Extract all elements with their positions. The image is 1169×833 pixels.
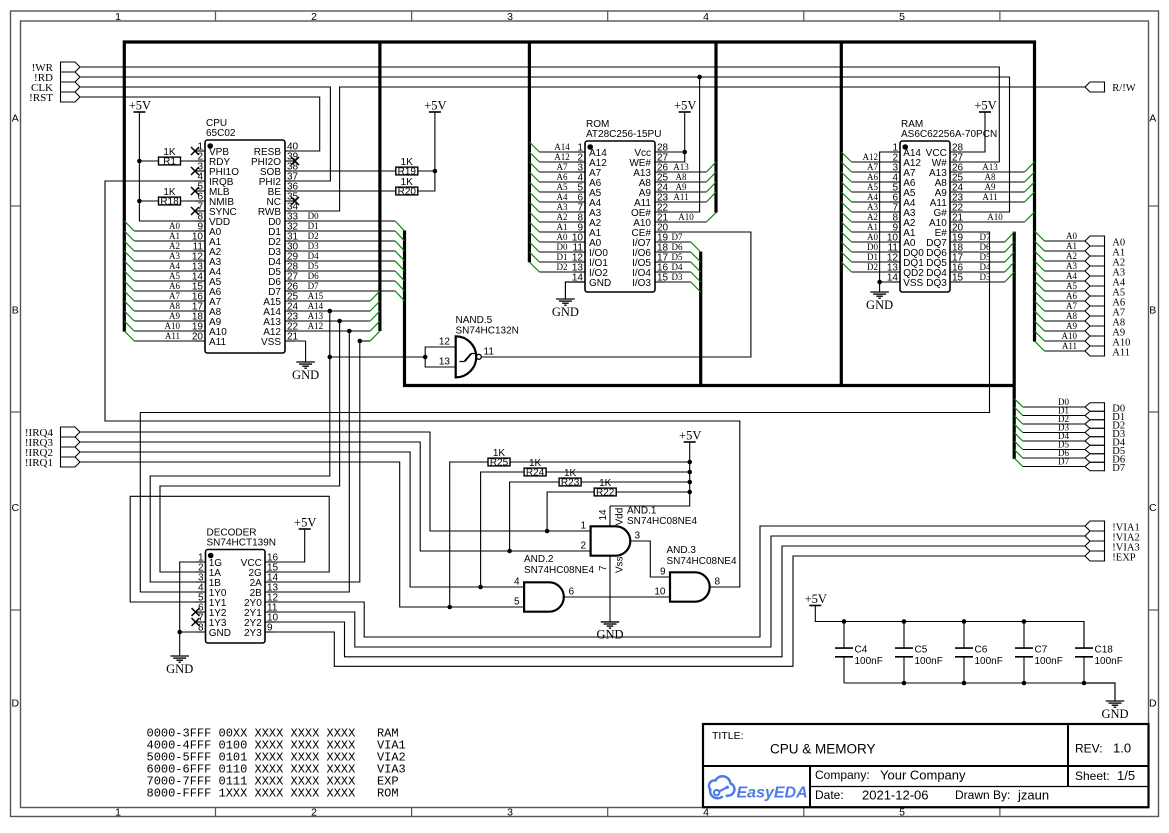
resistor R19 1K (SOB pullup) — [396, 157, 418, 178]
svg-text:A10: A10 — [1062, 331, 1078, 341]
svg-text:GND: GND — [589, 278, 611, 289]
wire D3 flag wire — [1023, 432, 1085, 434]
wire CPU D1 to data bus — [285, 230, 395, 232]
node A6 label (RAM left) — [867, 172, 878, 182]
svg-text:A14: A14 — [308, 301, 324, 311]
junction at 434.9,171 — [433, 169, 438, 174]
junction at 689.7,472 — [687, 470, 692, 475]
svg-text:VSS: VSS — [903, 278, 923, 289]
wire RAM A5 wire — [852, 191, 900, 193]
svg-text:A8: A8 — [985, 172, 996, 182]
bus entry D0 (flag) — [1014, 399, 1023, 408]
bus entry A6 (flag) — [1035, 291, 1045, 301]
svg-text:A13: A13 — [308, 311, 324, 321]
wire CPU A1 to address bus — [134, 240, 205, 242]
node A8 label (flag wire) — [1066, 311, 1077, 321]
bus entry D7 (RAM right) — [1005, 232, 1014, 242]
bus entry A0 (ROM left) — [529, 232, 539, 242]
node A10 label (RAM right) — [987, 212, 1003, 222]
svg-text:!RST: !RST — [29, 92, 53, 104]
wire R18 to +5V rail — [139, 200, 158, 202]
wire R24 branch — [481, 472, 524, 587]
bus entry A6 (RAM left) — [841, 172, 851, 182]
wire A4 flag wire — [1045, 280, 1086, 282]
svg-text:TITLE:: TITLE: — [712, 730, 744, 742]
svg-text:R20: R20 — [398, 186, 417, 197]
wire !RST to CPU RESB — [80, 97, 320, 151]
node A8 label (ROM right) — [676, 172, 687, 182]
svg-text:14: 14 — [598, 509, 609, 521]
wire R1 to CPU RDY — [181, 160, 206, 162]
node A9 label (CPU) — [169, 311, 180, 321]
svg-text:A3: A3 — [169, 251, 180, 261]
svg-text:5: 5 — [899, 11, 905, 23]
bus entry A1 (ROM left) — [529, 222, 539, 232]
svg-text:A0: A0 — [557, 232, 568, 242]
svg-text:D0: D0 — [867, 242, 878, 252]
svg-text:Your Company: Your Company — [880, 768, 966, 783]
svg-text:A6: A6 — [1066, 291, 1077, 301]
wire CPU A3 to address bus — [134, 260, 205, 262]
wire CPU A13 to high-address bus — [285, 320, 370, 322]
wire +5V to CPU VDD rail — [139, 112, 205, 221]
node A7 label (ROM left) — [557, 162, 568, 172]
junction at 425.2,357 — [423, 355, 428, 360]
node D6 label (ROM right) — [672, 242, 683, 252]
bus entry A1 (CPU left) — [124, 231, 134, 241]
node !IRQ4 input flag — [25, 427, 80, 439]
node D7 label (CPU) — [308, 281, 319, 291]
wire RAM A14 tie to ground — [880, 152, 900, 282]
junction at 904,621.5 — [902, 619, 907, 624]
svg-text:R18: R18 — [160, 196, 179, 207]
node D4 label (flag wire) — [1058, 431, 1069, 441]
wire RAM A10 wire right — [950, 221, 1025, 223]
svg-text:A8: A8 — [676, 172, 687, 182]
svg-text:R23: R23 — [561, 477, 580, 488]
svg-text:A7: A7 — [1066, 301, 1077, 311]
bus entry A11 (ROM right) — [706, 192, 716, 202]
wire R25 to +5V rail — [510, 461, 690, 463]
bus entry D3 (RAM right) — [1005, 272, 1014, 282]
svg-text:2: 2 — [580, 541, 586, 552]
node A9 label (flag wire) — [1066, 321, 1077, 331]
svg-text:Vdd: Vdd — [615, 508, 626, 526]
svg-text:A1: A1 — [867, 222, 878, 232]
wire A5 flag wire — [1045, 290, 1086, 292]
node A6 flag — [1085, 296, 1125, 308]
svg-text:A3: A3 — [1066, 261, 1077, 271]
svg-text:A1: A1 — [1066, 241, 1077, 251]
bus: ROM address vertical — [528, 42, 531, 262]
node A13 label (CPU) — [308, 311, 324, 321]
node A9 flag — [1085, 326, 1125, 338]
wire A12 stub to bus entry — [360, 340, 370, 342]
svg-text:R/!W: R/!W — [1112, 83, 1135, 94]
bus: ROM right address vertical — [714, 42, 717, 213]
wire CPU A8 to address bus — [134, 310, 205, 312]
svg-text:A8: A8 — [1066, 311, 1077, 321]
wire CPU A15 to high-address bus — [285, 300, 370, 302]
wire A8 flag wire — [1045, 320, 1086, 322]
capacitor C18 100nF — [1075, 622, 1123, 684]
bus entry D4 (flag) — [1014, 433, 1023, 442]
node A0 label (CPU) — [169, 221, 180, 231]
svg-text:C18: C18 — [1095, 645, 1114, 656]
bus entry A8 (CPU left) — [124, 301, 134, 311]
wire RAM D7 wire right — [950, 241, 1005, 243]
wire ROM A3 wire — [539, 211, 585, 213]
node A7 flag — [1085, 306, 1125, 318]
svg-text:D6: D6 — [308, 271, 319, 281]
ground (decoder GND / 1G tie) — [166, 632, 193, 676]
AND gate AND.1 SN74HC08NE4 — [580, 506, 697, 574]
bus entry D1 (ROM left) — [529, 252, 539, 262]
svg-text:2021-12-06: 2021-12-06 — [862, 788, 929, 803]
wire RAM VSS to ground — [880, 281, 900, 283]
junction at 689.7,462 — [687, 460, 692, 465]
node D5 label (flag wire) — [1058, 440, 1069, 450]
bus entry A8 (flag) — [1035, 311, 1045, 321]
bus entry A8 (ROM right) — [706, 172, 716, 182]
node A14 label (CPU) — [308, 301, 324, 311]
svg-text:1: 1 — [580, 521, 586, 532]
wire NAND output to ROM CE# — [481, 232, 751, 357]
svg-text:A12: A12 — [308, 321, 324, 331]
bus entry A13 (ROM right) — [706, 162, 716, 172]
svg-text:A: A — [12, 113, 19, 125]
svg-text:R25: R25 — [490, 457, 509, 468]
wire D4 flag wire — [1023, 440, 1085, 442]
resistor R25 1K (!IRQ1 pullup) — [488, 448, 510, 469]
svg-text:100nF: 100nF — [1095, 656, 1123, 667]
wire RAM A2 wire — [852, 221, 900, 223]
wire R19 to +5V — [418, 170, 435, 172]
svg-text:AT28C256-15PU: AT28C256-15PU — [586, 129, 661, 140]
svg-text:+5V: +5V — [974, 99, 996, 113]
wire RAM A9 wire right — [950, 191, 1025, 193]
svg-text:Vss: Vss — [615, 556, 626, 573]
wire D5 flag wire — [1023, 449, 1085, 451]
svg-text:A4: A4 — [169, 261, 180, 271]
wire RAM A6 wire — [852, 181, 900, 183]
node A6 label (ROM left) — [557, 172, 568, 182]
svg-text:A6: A6 — [557, 172, 568, 182]
bus entry D5 (CPU) — [395, 271, 404, 281]
node !VIA3 flag — [1085, 541, 1140, 553]
wire A14 line to NAND input and decoder 1B — [150, 311, 330, 582]
svg-text:6: 6 — [569, 587, 575, 598]
node A10 label (CPU) — [165, 321, 181, 331]
wire RAM D2 wire — [852, 271, 900, 273]
svg-text:A9: A9 — [169, 311, 180, 321]
bus entry A1 (RAM left) — [841, 222, 851, 232]
svg-text:GND: GND — [866, 298, 893, 312]
svg-text:jzaun: jzaun — [1017, 788, 1049, 803]
bus entry A4 (ROM left) — [529, 192, 539, 202]
capacitor C4 100nF — [835, 622, 883, 684]
bus entry D6 (RAM right) — [1005, 242, 1014, 252]
node A4 flag — [1085, 276, 1126, 288]
wire CPU A5 to address bus — [134, 280, 205, 282]
bus entry D7 (ROM right) — [691, 242, 701, 252]
wire CPU A7 to address bus — [134, 300, 205, 302]
svg-text:+5V: +5V — [679, 429, 701, 443]
wire A12 line to decoder 2B — [265, 331, 349, 592]
bus entry A11 (flag) — [1035, 341, 1045, 351]
bus entry (CPU A12 row) — [370, 331, 380, 341]
node D3 label (flag wire) — [1058, 423, 1069, 433]
power +5V (decoder VCC) — [294, 516, 316, 530]
wire ROM A13 wire right — [655, 171, 706, 173]
node A9 label (RAM right) — [985, 182, 996, 192]
bus entry A5 (flag) — [1035, 281, 1045, 291]
power +5V (bypass caps) — [805, 592, 827, 606]
svg-text:+5V: +5V — [805, 592, 827, 606]
svg-text:A0: A0 — [169, 221, 180, 231]
node A11 label (flag wire) — [1062, 341, 1077, 351]
wire RAM VCC to +5V — [950, 112, 985, 152]
node A11 flag — [1085, 346, 1130, 358]
svg-text:A7: A7 — [557, 162, 568, 172]
ground (RAM VSS / A14 tie) — [866, 282, 893, 312]
wire RAM D5 wire right — [950, 261, 1005, 263]
svg-text:A1: A1 — [169, 231, 180, 241]
svg-text:A10: A10 — [987, 212, 1003, 222]
svg-text:D0: D0 — [308, 211, 319, 221]
wire RAM D0 wire — [852, 251, 900, 253]
resistor R20 1K (BE pullup) — [396, 177, 418, 198]
svg-text:REV:: REV: — [1075, 742, 1103, 756]
node D5 label (RAM right) — [980, 252, 991, 262]
junction at 1024,683 — [1022, 681, 1027, 686]
svg-text:4: 4 — [703, 11, 709, 23]
node A12 label (CPU) — [308, 321, 324, 331]
wire ROM D5 wire right — [655, 261, 691, 263]
resistor R18 1K (NMIB pullup) — [159, 187, 181, 208]
bus entry A12 (CPU) — [370, 321, 380, 331]
junction at 449.7,607 — [447, 605, 452, 610]
node A10 label (ROM right) — [678, 212, 694, 222]
node A11 label (RAM right) — [982, 192, 997, 202]
bus entry A7 (ROM left) — [529, 162, 539, 172]
svg-text:A10: A10 — [165, 321, 181, 331]
wire R25 branch — [450, 462, 488, 607]
node A2 label (CPU) — [169, 241, 180, 251]
node D4 label (ROM right) — [672, 262, 683, 272]
node A11 label (ROM right) — [673, 192, 688, 202]
junction at 359.8,341 — [358, 339, 363, 344]
bus entry A3 (flag) — [1035, 261, 1045, 271]
bus entry D2 (RAM left) — [841, 262, 851, 272]
wire A13 line to decoder 1A — [160, 321, 340, 572]
svg-text:EasyEDA: EasyEDA — [737, 785, 808, 802]
wire AND.1 output to AND.3 pin9 — [630, 541, 670, 577]
node !RST input flag — [29, 92, 80, 104]
wire CPU D5 to data bus — [285, 270, 395, 272]
svg-text:7: 7 — [598, 565, 609, 571]
NAND gate NAND.5 SN74HC132N (inverter for ROM CE) — [439, 315, 519, 378]
svg-text:10: 10 — [654, 587, 666, 598]
bus entry A2 (CPU left) — [124, 241, 134, 251]
node A10 flag — [1085, 336, 1130, 348]
node A12 label (RAM left) — [863, 152, 879, 162]
node A7 label (flag wire) — [1066, 301, 1077, 311]
wire D1 flag wire — [1023, 415, 1085, 417]
svg-text:A2: A2 — [1066, 251, 1077, 261]
svg-text:A10: A10 — [678, 212, 694, 222]
bus entry D7 (CPU) — [395, 291, 404, 301]
wire RAM D1 wire — [852, 261, 900, 263]
junction at 179.7,632 — [177, 630, 182, 635]
node A1 label (ROM left) — [557, 222, 568, 232]
svg-text:D1: D1 — [557, 252, 568, 262]
svg-text:A5: A5 — [867, 182, 878, 192]
svg-text:A2: A2 — [557, 212, 568, 222]
svg-text:D1: D1 — [308, 221, 319, 231]
wire R24 to +5V rail — [546, 471, 690, 473]
wire ROM A14 wire — [539, 151, 585, 153]
svg-text:11: 11 — [484, 346, 495, 357]
bus entry A9 (flag) — [1035, 321, 1045, 331]
svg-text:D6: D6 — [672, 242, 683, 252]
bus entry D0 (CPU) — [395, 221, 404, 231]
bus: ROM data vertical — [699, 252, 702, 386]
IC U2 ROM AT28C256-15PU (pins 1-28) — [572, 119, 669, 292]
node D1 label (ROM left) — [557, 252, 568, 262]
node A15 label (CPU) — [308, 291, 324, 301]
wire RAM A7 wire — [852, 171, 900, 173]
node D7 label (RAM right) — [980, 232, 991, 242]
node D1 label (RAM left) — [867, 252, 878, 262]
node D6 label (flag wire) — [1058, 448, 1069, 458]
wire !WR to RAM W# — [80, 67, 999, 162]
wire A7 flag wire — [1045, 310, 1086, 312]
node A0 flag — [1085, 236, 1125, 248]
title block frame — [703, 724, 1149, 807]
junction at 547.1,531 — [545, 529, 550, 534]
wire D0 flag wire — [1023, 406, 1085, 408]
node D4 flag — [1085, 437, 1126, 449]
wire CPU D4 to data bus — [285, 260, 395, 262]
node A1 label (CPU) — [169, 231, 180, 241]
wire R22 to +5V rail — [616, 491, 690, 493]
junction at 349.3,331 — [347, 329, 352, 334]
node D3 label (ROM right) — [672, 272, 683, 282]
svg-text:A6: A6 — [867, 172, 878, 182]
bus entry A10 (flag) — [1035, 331, 1045, 341]
wire !IRQ2 to AND.2 pin4 — [80, 452, 524, 587]
node !EXP flag — [1085, 551, 1136, 563]
svg-text:A12: A12 — [554, 152, 570, 162]
wire !IRQ4 to AND.1 pin1 — [80, 432, 591, 531]
svg-text:AS6C62256A-70PCN: AS6C62256A-70PCN — [901, 129, 997, 140]
junction at 1084,683 — [1082, 681, 1087, 686]
svg-text:AND.1: AND.1 — [627, 506, 657, 517]
wire R1 to +5V rail — [139, 160, 158, 162]
node D5 label (ROM right) — [672, 252, 683, 262]
node !IRQ1 input flag — [25, 457, 80, 469]
wire ROM A2 wire — [539, 221, 585, 223]
node A4 label (ROM left) — [557, 192, 568, 202]
junction at 339.6,321 — [337, 319, 342, 324]
svg-text:D1: D1 — [867, 252, 878, 262]
svg-text:A6: A6 — [169, 281, 180, 291]
svg-text:A2: A2 — [169, 241, 180, 251]
junction at 509.6,551 — [507, 549, 512, 554]
svg-text:A15: A15 — [308, 291, 324, 301]
node A5 label (CPU) — [169, 271, 180, 281]
svg-text:D7: D7 — [1112, 463, 1125, 474]
svg-text:AND.3: AND.3 — [667, 545, 697, 556]
wire CPU BE to R20 — [285, 190, 396, 192]
svg-text:!EXP: !EXP — [1112, 552, 1135, 563]
svg-text:A4: A4 — [557, 192, 568, 202]
wire A2 flag wire — [1045, 260, 1086, 262]
bus entry A6 (ROM left) — [529, 172, 539, 182]
svg-text:VSS: VSS — [261, 337, 281, 348]
bus entry A9 (ROM right) — [706, 182, 716, 192]
node D2 label (ROM left) — [557, 262, 568, 272]
svg-text:D5: D5 — [672, 252, 683, 262]
wire RAM D4 wire right — [950, 271, 1005, 273]
node A3 flag — [1085, 266, 1125, 278]
svg-text:Drawn By:: Drawn By: — [955, 788, 1010, 802]
svg-text:D2: D2 — [308, 231, 319, 241]
bus: CPU data vertical + bottom rail + right data vertical — [405, 231, 1015, 460]
wire A9 flag wire — [1045, 330, 1086, 332]
svg-text:D3: D3 — [672, 272, 683, 282]
bus entry D3 (ROM right) — [691, 282, 701, 292]
junction at 689.7,482 — [687, 480, 692, 485]
svg-text:1: 1 — [115, 806, 121, 818]
capacitor C5 100nF — [895, 622, 943, 684]
svg-text:1.0: 1.0 — [1113, 741, 1131, 756]
wire ROM D3 wire right — [655, 281, 691, 283]
svg-text:D2: D2 — [867, 262, 878, 272]
node A9 label (ROM right) — [676, 182, 687, 192]
svg-text:8: 8 — [715, 577, 721, 588]
wire ROM A7 wire — [539, 171, 585, 173]
svg-text:GND: GND — [166, 662, 193, 676]
wire decoder 1Y1 to 2G cascade — [130, 496, 329, 602]
wire CPU A12 to high-address bus — [285, 330, 370, 332]
wire RAM D3 wire right — [950, 281, 1005, 283]
node D5 flag — [1085, 445, 1125, 457]
wire decoder 1G tie to GND — [180, 562, 206, 632]
node D6 flag — [1085, 454, 1125, 466]
node A13 label (ROM right) — [673, 162, 689, 172]
bus entry D1 (flag) — [1014, 407, 1023, 416]
node A5 label (ROM left) — [557, 182, 568, 192]
bus entry A5 (RAM left) — [841, 182, 851, 192]
wire CPU D7 to data bus — [285, 290, 395, 292]
ground (ROM GND) — [552, 282, 585, 319]
bus entry A12 (RAM left) — [841, 152, 851, 162]
svg-text:A8: A8 — [169, 301, 180, 311]
wire !IRQ1 to AND.2 pin5 — [80, 462, 524, 607]
resistor R22 1K (!IRQ4 pullup) — [594, 478, 616, 499]
wire +5V pullup rail riser — [610, 442, 690, 506]
svg-text:GND: GND — [1101, 707, 1128, 721]
node D0 label (RAM left) — [867, 242, 878, 252]
svg-text:+5V: +5V — [674, 99, 696, 113]
wire decoder 2Y1 to !VIA2 — [265, 536, 1085, 647]
junction at 879.6,282 — [877, 280, 882, 285]
junction at 904,683 — [902, 681, 907, 686]
node D3 label (CPU) — [308, 241, 319, 251]
bus entry A8 (RAM right) — [1025, 172, 1035, 182]
